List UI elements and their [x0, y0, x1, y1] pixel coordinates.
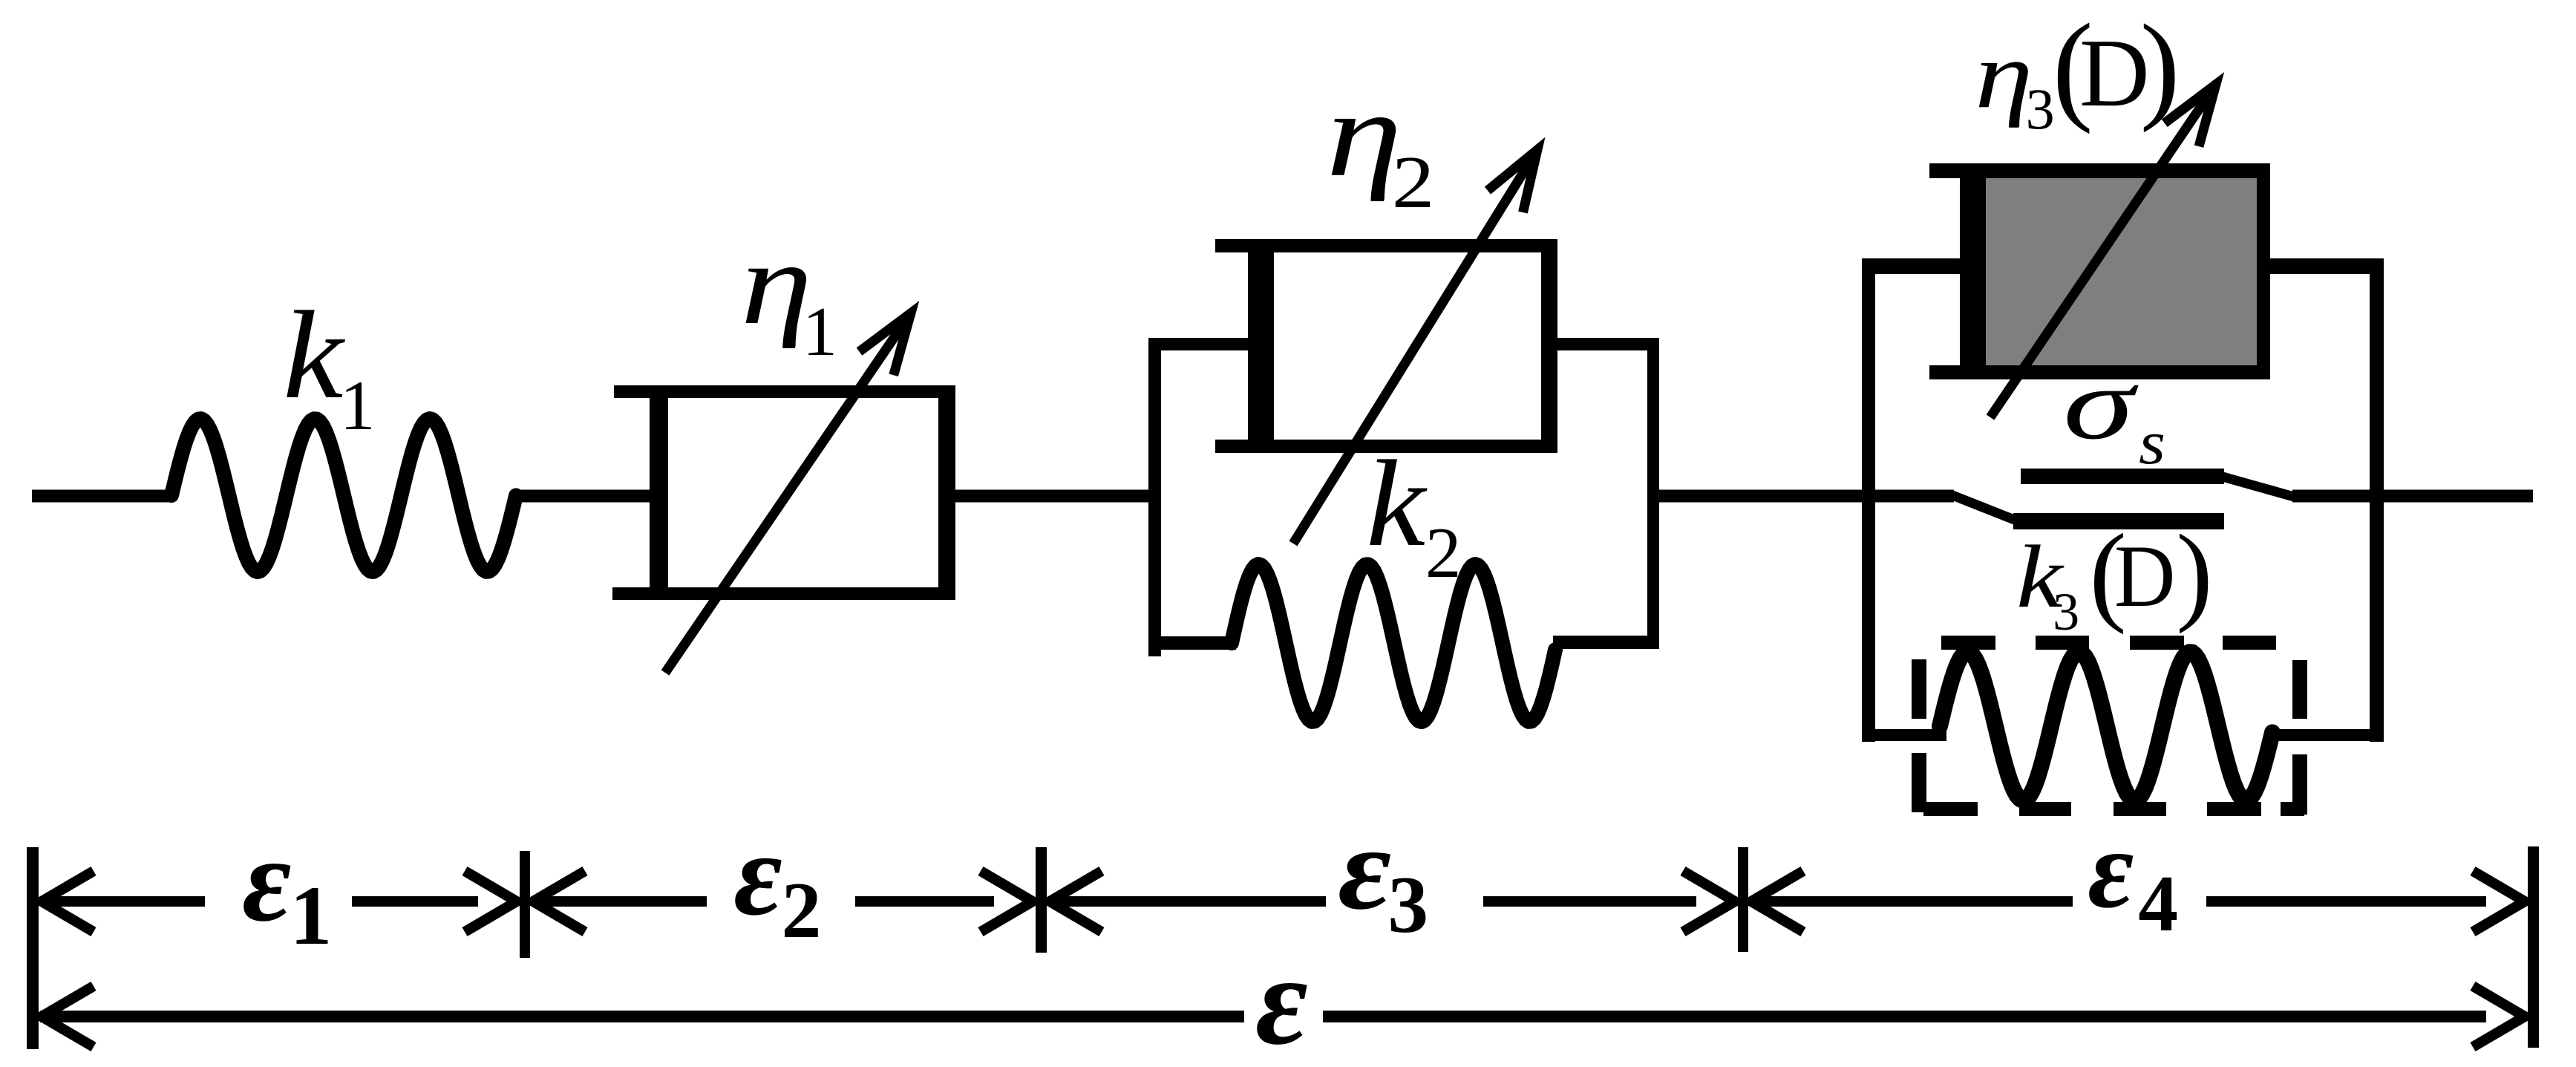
- wire sliding element to right lead: [2292, 490, 2533, 503]
- dashpot eta2 piston: [1248, 252, 1274, 440]
- label epsilon3: [1338, 803, 1428, 950]
- strain tick epsilon2/epsilon3: [1036, 847, 1047, 953]
- svg-text:η: η: [1975, 22, 2033, 128]
- dashpot eta1 piston: [650, 398, 668, 587]
- wire left lead: [32, 490, 174, 503]
- spring k2: [1232, 564, 1555, 722]
- svg-text:k: k: [283, 286, 345, 425]
- strain tick epsilon3/epsilon4: [1738, 847, 1748, 952]
- svg-text:ε: ε: [2088, 806, 2134, 931]
- spring k3 (damage dependent): [1940, 652, 2272, 800]
- Kelvin element frame: [1148, 338, 1659, 656]
- svg-text:k: k: [1366, 434, 1428, 572]
- label sigma_s: [2063, 347, 2165, 478]
- dimension arrow total strain epsilon: [40, 986, 2525, 1047]
- svg-text:3: 3: [2026, 76, 2055, 141]
- svg-text:D: D: [2079, 19, 2150, 127]
- strain axis tick right (overall): [2528, 846, 2539, 1048]
- wire dashpot eta1 to Kelvin element: [955, 490, 1155, 503]
- wire spring k1 to dashpot eta1: [514, 490, 661, 503]
- svg-text:1: 1: [340, 366, 376, 445]
- dimension arrow epsilon2: [532, 871, 1033, 932]
- label total strain epsilon: [1255, 930, 1308, 1067]
- dashpot eta3 cylinder: [1929, 163, 2270, 379]
- dashpot eta2 variable arrow: [1293, 149, 1538, 544]
- label k1: [283, 286, 376, 445]
- svg-text:3: 3: [1387, 859, 1428, 950]
- dashpot eta3 piston: [1960, 178, 1986, 365]
- dashpot eta2 cylinder: [1215, 239, 1557, 453]
- svg-text:ε: ε: [1255, 930, 1308, 1067]
- svg-text:2: 2: [782, 867, 822, 955]
- svg-text:s: s: [2139, 409, 2165, 477]
- svg-text:ε: ε: [1338, 803, 1391, 934]
- dimension arrow epsilon4: [1750, 871, 2525, 932]
- svg-text:4: 4: [2138, 860, 2178, 948]
- friction slider sigma_s: [1952, 469, 2294, 529]
- label epsilon4: [2088, 806, 2178, 948]
- dashed box around spring k3: [1912, 636, 2307, 816]
- dashpot eta1 cylinder: [612, 385, 955, 600]
- dashpot eta1 variable arrow: [665, 312, 912, 673]
- label epsilon1: [242, 813, 332, 962]
- dimension arrow epsilon1: [40, 871, 517, 932]
- svg-text:D: D: [2114, 527, 2175, 625]
- label k3(D): [2016, 511, 2213, 642]
- svg-text:2: 2: [1392, 142, 1435, 223]
- sliding element frame: [1862, 258, 2384, 742]
- label eta3(D): [1975, 0, 2180, 141]
- svg-text:1: 1: [290, 869, 332, 962]
- dashpot eta3 variable arrow: [1990, 83, 2217, 417]
- label eta2: [1326, 66, 1434, 223]
- strain axis tick left (overall): [27, 847, 39, 1049]
- svg-text:3: 3: [2053, 582, 2079, 642]
- dimension arrow epsilon3: [1048, 871, 1735, 932]
- dashpot eta3 gray fluid fill: [1986, 178, 2257, 365]
- wire Kelvin element to sliding element: [1659, 490, 1954, 503]
- svg-text:ε: ε: [242, 813, 291, 946]
- label epsilon2: [733, 809, 821, 955]
- svg-text:1: 1: [802, 293, 837, 371]
- svg-text:): ): [2176, 513, 2212, 635]
- strain tick epsilon1/epsilon2: [520, 851, 530, 958]
- label eta1: [741, 218, 837, 371]
- svg-text:σ: σ: [2063, 347, 2139, 461]
- svg-text:ε: ε: [733, 809, 782, 940]
- svg-text:η: η: [741, 218, 812, 349]
- label k2: [1366, 434, 1461, 593]
- svg-text:2: 2: [1425, 513, 1462, 593]
- svg-text:): ): [2140, 1, 2180, 134]
- svg-text:η: η: [1326, 66, 1402, 202]
- spring k1: [171, 419, 516, 572]
